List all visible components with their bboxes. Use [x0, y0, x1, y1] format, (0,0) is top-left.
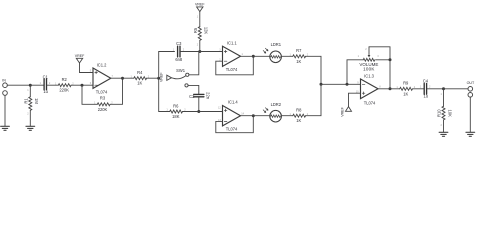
wire node K down to node L [389, 60, 391, 89]
svg-text:10K: 10K [447, 110, 452, 118]
ground under R10 [439, 132, 448, 136]
wire R4 to node D [147, 77, 159, 79]
svg-text:R10: R10 [437, 109, 442, 117]
svg-text:220K: 220K [59, 87, 69, 92]
wire node F to IC1.4 + input [183, 111, 223, 113]
wire IN bottom pin to ground [4, 95, 6, 126]
wire IC1.1 output to LDR1 [241, 55, 270, 57]
node C junction [121, 77, 124, 80]
svg-text:22n: 22n [205, 92, 210, 100]
resistor R4 1K [131, 70, 150, 86]
resistor R8 1K [290, 108, 309, 124]
svg-text:OUT: OUT [467, 81, 475, 85]
ground under OUT [466, 132, 475, 136]
node B junction [81, 84, 84, 87]
svg-text:TL074: TL074 [226, 67, 238, 72]
resistor R1 1M [24, 85, 40, 126]
wire IC1.3 + input to VREF [349, 93, 361, 106]
svg-text:12K: 12K [204, 27, 209, 35]
svg-text:1K: 1K [137, 81, 142, 86]
svg-text:R1: R1 [24, 98, 29, 104]
switch SW1 [172, 68, 189, 87]
wire IC1.3 output to R9 [378, 88, 400, 90]
feedback wire IC1.4 output to inverting input [216, 116, 254, 133]
node L junction [389, 87, 392, 90]
capacitor C1 1u [40, 74, 51, 94]
wire LDR1 to R7 [281, 55, 292, 57]
wire node E to IC1.1 + input [200, 51, 223, 53]
svg-text:C2: C2 [189, 94, 195, 99]
svg-text:IC1.2: IC1.2 [97, 62, 108, 67]
feedback wire IC1.1 output to inverting input [216, 56, 254, 75]
node K junction [389, 58, 392, 61]
svg-text:VREF: VREF [160, 72, 164, 82]
op-amp IC1.1 TL074 [219, 40, 243, 71]
LDR LDR1 [263, 42, 282, 63]
svg-text:IC1.1: IC1.1 [227, 40, 238, 45]
svg-text:VREF: VREF [340, 106, 344, 116]
wire C1 to R2 [47, 84, 58, 86]
wire IC1.2 output to R4 [111, 77, 134, 79]
svg-text:R5: R5 [193, 27, 198, 33]
svg-text:IC1.4: IC1.4 [228, 100, 239, 105]
supply VREF at SW1 [160, 72, 172, 82]
svg-text:TL074: TL074 [96, 90, 108, 95]
capacitor C3 6n8 [173, 41, 185, 62]
node F junction [197, 110, 200, 113]
ground under R1 [26, 126, 35, 130]
resistor R3 220K [94, 96, 113, 112]
svg-text:1K: 1K [296, 59, 301, 64]
svg-text:LDR1: LDR1 [271, 42, 282, 47]
feedback wire node B down to R3 [82, 85, 97, 104]
resistor R6 18K [166, 103, 186, 119]
svg-text:IC1.3: IC1.3 [364, 73, 375, 78]
wire LDR2 to R8 [281, 115, 292, 117]
svg-text:SW1: SW1 [176, 68, 186, 73]
svg-text:R3: R3 [100, 96, 106, 101]
svg-text:R6: R6 [173, 103, 179, 108]
wire VREF to IC1.2 + input [80, 63, 94, 73]
resistor R9 1K [396, 81, 415, 97]
svg-text:R8: R8 [296, 108, 302, 113]
op-amp IC1.3 TL074 [356, 73, 382, 105]
wire pot right end to node K [376, 59, 390, 61]
svg-text:18K: 18K [172, 114, 180, 119]
resistor R5 12K [193, 12, 209, 52]
supply VREF near IC1.2 [75, 54, 85, 63]
op-amp IC1.2 TL074 [90, 62, 114, 94]
wire SW1 bottom contact to C2 [188, 85, 199, 93]
svg-text:1K: 1K [403, 91, 408, 96]
wire OUT bottom pin to ground [469, 97, 471, 132]
resistor R10 10K [437, 89, 453, 132]
svg-text:TL074: TL074 [364, 100, 376, 105]
wire SW1 top contact to node E [189, 52, 200, 75]
node A junction [29, 84, 32, 87]
connector OUT [467, 81, 475, 97]
node I junction [346, 83, 349, 86]
node J junction [252, 114, 255, 117]
ground under IN [1, 126, 10, 130]
svg-text:R7: R7 [296, 48, 302, 53]
svg-text:LDR2: LDR2 [271, 102, 282, 107]
resistor R7 1K [290, 48, 309, 64]
wire node I up to volume pot [347, 60, 363, 85]
node D junction [157, 77, 160, 80]
svg-text:R2: R2 [62, 77, 68, 82]
svg-text:VREF: VREF [75, 54, 85, 58]
wire R7 to summing bus [306, 56, 321, 84]
svg-text:1K: 1K [296, 118, 301, 123]
wire node A to C1 [30, 84, 43, 86]
wire node D down to R6 row [159, 78, 170, 111]
wire R2 to node B [71, 84, 93, 86]
wire bus to IC1.3 inverting input [321, 83, 361, 85]
node M junction [442, 87, 445, 90]
LDR LDR2 [263, 102, 282, 122]
capacitor C2 22n [189, 92, 210, 100]
wire C4 to node M [427, 88, 443, 90]
svg-text:VREF: VREF [195, 3, 205, 7]
connector IN [2, 78, 7, 95]
resistor R2 220K [55, 77, 74, 92]
svg-text:C1: C1 [43, 74, 49, 79]
svg-text:100K: 100K [363, 66, 375, 71]
wire R8 to summing bus [306, 84, 321, 115]
svg-text:IN: IN [2, 78, 6, 82]
svg-text:6n8: 6n8 [175, 57, 183, 62]
svg-text:R9: R9 [403, 81, 409, 86]
capacitor C4 1u [420, 78, 431, 98]
wire R9 to C4 [413, 88, 424, 90]
node E junction [198, 50, 201, 53]
node G junction [252, 55, 255, 58]
potentiometer VOLUME 100K [358, 47, 380, 72]
svg-text:1u: 1u [424, 94, 429, 99]
svg-text:220K: 220K [98, 107, 108, 112]
svg-text:C3: C3 [176, 41, 182, 46]
wire R3 up to node C [110, 78, 122, 104]
svg-text:C4: C4 [423, 78, 429, 83]
svg-text:TL074: TL074 [226, 127, 238, 132]
wire node D up to C3 row [159, 52, 175, 79]
supply VREF above R5 [195, 3, 205, 12]
svg-text:1M: 1M [34, 98, 39, 104]
wire C3 to node E [181, 51, 200, 53]
wire IN top pin to node A [7, 84, 30, 86]
op-amp IC1.4 TL074 [218, 100, 245, 132]
svg-text:R4: R4 [137, 70, 143, 75]
node H junction [320, 83, 323, 86]
svg-text:1u: 1u [43, 89, 48, 94]
supply VREF under IC1.3 [340, 106, 351, 116]
wire pot wiper to feedback top [369, 47, 390, 60]
wire C2 to node F [198, 97, 200, 111]
wire IC1.4 output to LDR2 [241, 115, 270, 117]
wire node M to OUT [444, 88, 469, 90]
